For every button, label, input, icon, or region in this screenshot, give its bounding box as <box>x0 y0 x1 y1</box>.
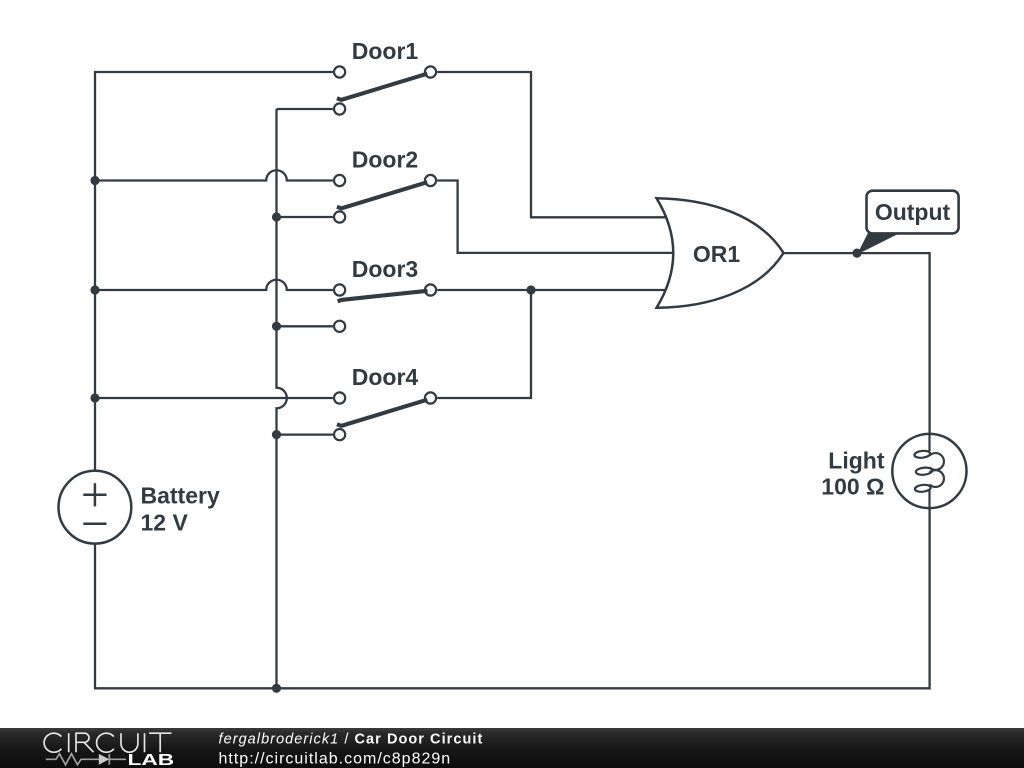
svg-text:Output: Output <box>875 199 951 225</box>
svg-text:Door2: Door2 <box>352 147 418 173</box>
svg-text:100 Ω: 100 Ω <box>821 474 884 500</box>
svg-text:OR1: OR1 <box>693 241 741 267</box>
svg-text:12 V: 12 V <box>141 510 189 536</box>
svg-text:fergalbroderick1 / Car Door Ci: fergalbroderick1 / Car Door Circuit <box>219 732 484 748</box>
svg-text:LAB: LAB <box>128 751 175 768</box>
svg-text:http://circuitlab.com/c8p829n: http://circuitlab.com/c8p829n <box>219 750 452 767</box>
svg-text:Light: Light <box>828 448 885 474</box>
svg-text:Door3: Door3 <box>352 256 418 282</box>
svg-text:Door1: Door1 <box>352 38 419 64</box>
svg-text:Battery: Battery <box>141 482 220 508</box>
svg-text:Door4: Door4 <box>352 364 419 390</box>
